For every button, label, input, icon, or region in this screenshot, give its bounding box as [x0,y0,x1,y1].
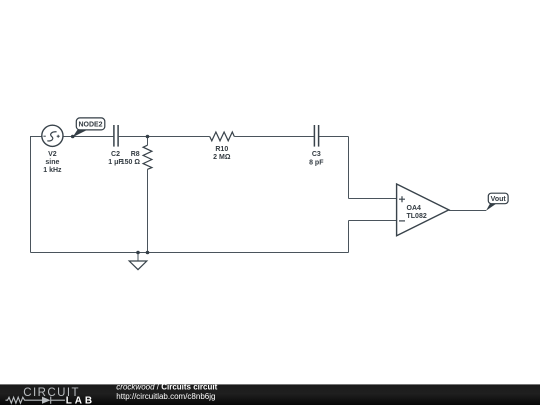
svg-text:http://circuitlab.com/c8nb6jg: http://circuitlab.com/c8nb6jg [116,392,215,401]
node label Vout [486,193,508,211]
svg-text:V2: V2 [48,151,57,158]
label R8 / 150 Ohm [121,151,141,166]
resistor R8 [143,145,152,169]
svg-text:1 kHz: 1 kHz [43,167,62,174]
svg-text:C2: C2 [111,151,120,158]
wire: horizontal to op-amp + input [349,198,397,200]
svg-text:crockwood / Circuits circuit: crockwood / Circuits circuit [116,383,217,392]
wire: R8 top lead [147,137,149,146]
wire: − input vertical down to ground rail [348,221,350,253]
footer bar [0,384,540,405]
wire: op-amp − input horizontal [349,220,397,222]
capacitor C2 [114,125,118,147]
svg-text:8 pF: 8 pF [309,159,324,166]
logo wire with resistor and diode [6,397,66,404]
svg-text:TL082: TL082 [407,213,427,220]
wire: C2 right plate to R10 (through R8 junction) [119,136,210,138]
wire: ground stem [137,253,139,262]
wire: left vertical from V2 down to ground rail [30,137,32,253]
svg-text:2 MΩ: 2 MΩ [213,154,231,161]
wire: bottom ground rail [31,252,349,254]
node label NODE2 [73,118,105,137]
svg-text:LAB: LAB [66,395,95,405]
label OA4 / TL082 [407,205,427,220]
wire: vertical down toward op-amp + input [348,137,350,199]
svg-text:R10: R10 [215,146,228,153]
svg-text:150 Ω: 150 Ω [121,159,141,166]
svg-text:OA4: OA4 [407,205,422,212]
label R10 / 2 MOhm [213,146,231,161]
capacitor C3 [314,125,318,147]
svg-text:NODE2: NODE2 [78,122,102,129]
wire: V2 left lead [30,136,42,138]
svg-text:Vout: Vout [491,196,507,203]
wire: V2 right lead to C2 [63,136,113,138]
junction dot at R8 top [146,135,150,139]
svg-text:C3: C3 [312,151,321,158]
wire: R8 bottom lead to rail [147,169,149,252]
label C3 / 8 pF [309,151,324,166]
label V2 / sine / 1 kHz [43,151,62,174]
svg-text:sine: sine [45,159,59,166]
resistor R10 [210,132,235,141]
voltage source V2 [42,125,63,146]
svg-text:R8: R8 [131,151,140,158]
wire: R10 to C3 [234,136,314,138]
junction dot at ground [136,251,140,255]
ground [129,261,147,270]
op-amp OA4 [397,184,449,236]
junction dot at NODE2 [71,135,75,139]
wire: C3 right lead [319,136,349,138]
wire: op-amp output to Vout [449,210,486,212]
label C2 / 1 uF [108,151,123,166]
junction dot at R8 bottom [146,251,150,255]
